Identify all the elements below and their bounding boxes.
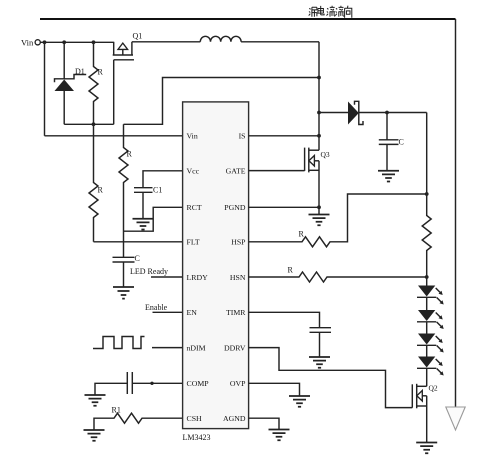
node junction at R bottom [92,122,96,126]
wire COMP pin line [132,382,183,384]
wire FLT pin line [94,241,184,243]
wire Vin pin line to IC [45,135,184,137]
svg-text:Enable: Enable [145,303,168,312]
wire EN stub [153,311,184,313]
svg-text:FLT: FLT [187,238,200,247]
node junction sense top [425,192,429,196]
svg-text:HSN: HSN [230,273,246,282]
svg-text:CSH: CSH [187,414,203,423]
wire switch node rail vertical [318,42,320,150]
wire IS pin to rail [249,135,320,137]
capacitor COMP series cap [126,372,128,394]
svg-text:Vcc: Vcc [187,167,200,176]
node leakage-title (漏电流流向 drawn as strokes) [309,6,352,18]
ground (below C) [113,287,134,299]
node junction sense bottom [425,275,429,279]
svg-text:C1: C1 [153,186,162,195]
node junction A (left vertical tap) [43,40,47,44]
svg-text:LRDY: LRDY [187,273,209,282]
capacitor C1 [134,187,153,189]
svg-text:EN: EN [187,308,198,317]
ground (CSH) [84,430,105,441]
svg-text:LED Ready: LED Ready [130,267,168,276]
ground (power ground) [309,215,330,226]
node junction gate-feedback tap [317,76,321,80]
node junction IS tap [317,134,321,138]
wire TIMR pin to cap [249,312,320,327]
svg-text:C: C [399,138,404,147]
wire feedback from rail to left drop [124,78,320,125]
node junction output cap tap [385,111,389,115]
svg-text:RCT: RCT [187,203,202,212]
ground (AGND) [269,430,290,441]
svg-text:DDRV: DDRV [224,343,246,352]
svg-text:AGND: AGND [223,414,246,423]
diode D (schottky rectifier) [348,102,359,125]
svg-text:D1: D1 [75,67,85,76]
resistor R (second on FLT drop) [89,124,98,242]
capacitor C (output) [386,113,388,140]
svg-text:OVP: OVP [230,379,246,388]
resistor R (middle, x123.5 chain) [119,124,128,257]
resistor R1 (CSH) [94,413,183,430]
node junction C (R tap) [92,40,96,44]
svg-text:TIMR: TIMR [226,308,246,317]
svg-text:IS: IS [239,132,246,141]
wire output corner down to sense node [426,113,428,195]
wire COMP cap left lead [95,383,127,395]
LED D5 [417,357,444,376]
wire LED string [426,277,428,386]
svg-text:COMP: COMP [187,379,210,388]
svg-text:GATE: GATE [226,167,246,176]
wire DDRV pin to Q2 gate [249,348,413,408]
svg-text:R: R [299,230,305,239]
capacitor C (TIMR) [310,327,332,329]
svg-text:Vin: Vin [187,132,198,141]
inductor L [200,36,241,42]
ground (below C1) [133,219,154,230]
resistor R (HSP) [249,194,427,247]
svg-text:R1: R1 [112,406,121,415]
resistor R (HSN) [249,272,427,282]
svg-text:HSP: HSP [231,238,246,247]
svg-text:Vin: Vin [21,38,34,48]
LED D4 [417,334,444,353]
resistor R (top left, from rail) [89,42,98,124]
svg-text:PGND: PGND [224,203,246,212]
node junction diode tap [317,111,321,115]
wire D1/R bottom bus to Q1 gate [64,123,114,125]
transistor Q1 (PMOS pass switch) [113,32,143,125]
wire RCT chain [124,207,184,231]
svg-text:R: R [98,186,104,195]
ground (TIMR) [309,357,330,368]
svg-text:Q3: Q3 [321,150,330,159]
LED D3 [417,310,444,329]
svg-text:Q2: Q2 [429,384,438,393]
svg-text:C: C [135,254,140,263]
capacitor C (FLT node) [113,256,135,258]
LED D2 [417,286,444,305]
wire AGND pin to ground [249,418,280,429]
ground (OVP) [289,396,310,407]
svg-text:R: R [127,150,133,159]
svg-text:Q1: Q1 [133,32,143,41]
node junction PGND tap [317,205,321,209]
wire nDIM stub [152,347,183,349]
wire GATE pin to Q3 gate [249,170,305,172]
node leakage arrow head [446,407,465,430]
svg-text:R: R [288,266,294,275]
wire leakage annotation top line [40,18,456,20]
svg-text:LM3423: LM3423 [183,433,211,442]
ground (Q2 source) [416,443,437,454]
svg-text:nDIM: nDIM [187,343,206,352]
wire diode to output corner [359,112,427,114]
wire LRDY stub [151,276,183,278]
svg-text:R: R [98,68,104,77]
node junction on COMP line [150,382,153,385]
wire top rail Vin to Q1 source [40,41,113,43]
wire OVP pin to ground [249,383,300,396]
node nDIM square wave symbol [93,337,145,349]
resistor R sense (vertical) [422,194,431,277]
wire rail Q1 drain to inductor [132,41,200,43]
diode D1 zener [63,42,65,79]
transistor Q2 (dimming NMOS) [412,384,438,443]
node junction B (D1 tap) [62,40,66,44]
wire inductor to switch rail [241,41,319,43]
wire Vcc pin to C1 [143,171,183,188]
transistor Q3 (main switch NMOS) [305,148,330,215]
ground (output cap) [378,171,399,182]
ground (COMP) [85,395,106,406]
op-amp U1 LM3423 controller block [183,102,249,429]
wire PGND pin to rail [249,206,320,208]
wire leakage annotation right vertical [455,19,457,407]
wire left vertical from Vin rail down to Vin pin line [44,42,46,136]
wire rail to diode [319,112,348,114]
